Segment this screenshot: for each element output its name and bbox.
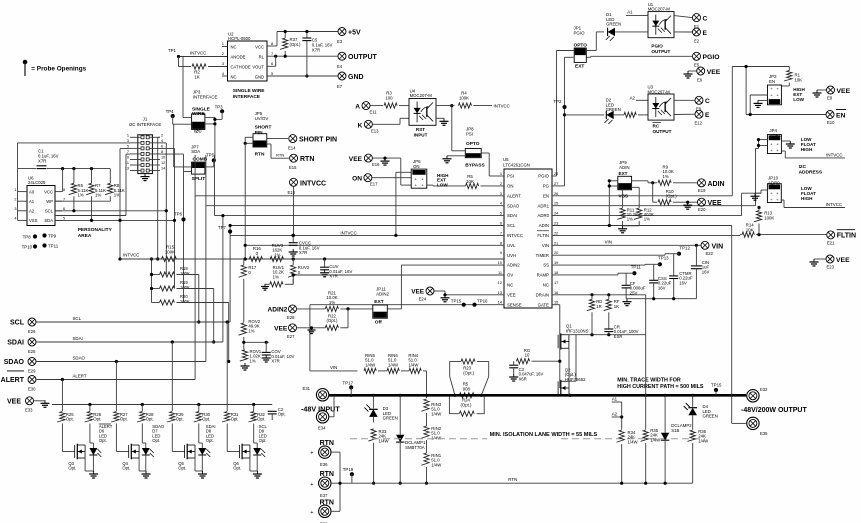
wire E16 gnd xyxy=(373,158,412,185)
ground ROV1 xyxy=(241,363,250,370)
wire R22 right xyxy=(340,309,348,328)
terminal E38 RTN xyxy=(310,499,334,523)
junction opt LED taps xyxy=(61,320,229,381)
wire CSS bot xyxy=(653,283,655,299)
wire drain to node xyxy=(645,295,647,396)
svg-text:PSI: PSI xyxy=(466,132,473,137)
wire VEE to R22 xyxy=(297,327,326,329)
probe openings legend xyxy=(23,60,87,76)
svg-text:SDAI: SDAI xyxy=(73,336,83,341)
svg-text:E3: E3 xyxy=(337,39,343,44)
svg-text:E: E xyxy=(705,112,710,119)
wire DCLAMP2 v xyxy=(664,395,666,433)
wire ADIN2 to R21 xyxy=(297,308,326,310)
resistor R28 xyxy=(137,412,154,423)
terminal E1 C xyxy=(693,14,708,29)
wire TP3 drop xyxy=(215,111,222,119)
svg-text:SS: SS xyxy=(543,263,549,268)
LED D7 xyxy=(142,424,154,458)
wire JP3 pin4 xyxy=(205,123,215,125)
wire JP4 left drop xyxy=(758,140,760,149)
wire R3 to U4 xyxy=(399,105,409,107)
wire C5 bottom xyxy=(306,41,308,76)
junction bundle xyxy=(165,209,176,222)
svg-text:16V: 16V xyxy=(658,285,666,290)
svg-text:E35: E35 xyxy=(760,431,768,436)
wire R11 bot xyxy=(622,221,624,226)
jumper JP3 INTERFACE xyxy=(192,90,218,135)
svg-text:Opt.: Opt. xyxy=(152,438,160,443)
svg-text:= Probe Openings: = Probe Openings xyxy=(31,66,86,73)
wire tp11 link xyxy=(626,272,634,274)
wire JP11 right xyxy=(387,308,401,310)
terminal E5 PGIO xyxy=(693,52,720,67)
svg-text:TP16: TP16 xyxy=(477,298,488,303)
junction DCLAMP1 rtn xyxy=(399,482,402,485)
wire U6 SDA ext xyxy=(92,219,175,221)
resistor RIN2 xyxy=(421,426,442,440)
ground Q6D9 xyxy=(253,471,262,478)
wire -48V bus xyxy=(329,394,746,397)
svg-text:Opt.: Opt. xyxy=(259,438,267,443)
wire JP6 low to R5 xyxy=(427,184,433,187)
svg-text:E12: E12 xyxy=(695,121,703,126)
svg-text:E29: E29 xyxy=(28,369,36,374)
resistor R25 xyxy=(57,412,74,423)
junction JP9 xyxy=(608,179,611,187)
wire U6 SDA net xyxy=(55,196,92,220)
svg-text:1%: 1% xyxy=(627,217,633,222)
svg-text:A1: A1 xyxy=(612,397,618,402)
junction JP5 xyxy=(244,142,247,145)
wire U4 to JP8 xyxy=(452,106,466,151)
svg-text:12: 12 xyxy=(161,161,165,165)
svg-text:16V: 16V xyxy=(679,280,687,285)
svg-text:1K: 1K xyxy=(614,304,619,309)
svg-text:E34: E34 xyxy=(318,426,326,431)
wire tp12 link xyxy=(674,253,679,255)
wire ALERT pin xyxy=(195,195,504,197)
resistor RIN1 xyxy=(421,453,442,467)
terminal E34 xyxy=(316,411,328,431)
wire R20 right xyxy=(177,303,229,362)
svg-text:J1: J1 xyxy=(143,117,148,122)
wire U4 pin4 xyxy=(436,105,455,107)
ground RUV1 xyxy=(261,284,269,290)
junction sdai xyxy=(221,214,224,217)
capacitor CUV xyxy=(320,264,352,279)
label INTVCC JP10 xyxy=(826,202,842,207)
svg-text:+: + xyxy=(310,482,313,488)
svg-text:TP1: TP1 xyxy=(168,48,177,53)
svg-text:E30: E30 xyxy=(28,387,36,392)
svg-text:19: 19 xyxy=(554,260,558,265)
jumper JP8 PSI xyxy=(465,127,485,169)
wire JP6 INTVCC riser xyxy=(396,172,411,235)
wire bundle v3 xyxy=(160,149,175,221)
wire J1 pin5 drop xyxy=(120,149,130,260)
junction pullups xyxy=(150,257,159,290)
wire tp15 stem xyxy=(715,390,717,395)
wire C1 right rail xyxy=(47,168,110,170)
svg-text:VBS: VBS xyxy=(619,194,628,199)
resistor R18 xyxy=(160,266,190,277)
svg-text:E6: E6 xyxy=(697,77,703,82)
wire E38 link xyxy=(331,483,340,511)
svg-text:X7R: X7R xyxy=(38,158,46,163)
wire R18 left xyxy=(152,274,160,276)
svg-text:1: 1 xyxy=(500,171,502,176)
wire SCL line xyxy=(36,321,230,323)
jumper JP5 UV/OV xyxy=(253,111,271,158)
wire OV tap xyxy=(244,341,269,343)
jumper JP1 PGIO xyxy=(574,26,588,70)
wire R37 bottom to RL xyxy=(284,51,286,56)
label RTN net xyxy=(508,477,517,482)
capacitor COV xyxy=(262,349,295,364)
test point TP4 xyxy=(166,109,175,118)
svg-text:OPTO: OPTO xyxy=(574,42,588,48)
svg-text:GATE: GATE xyxy=(538,302,550,307)
label RTN net xyxy=(276,153,284,158)
wire U1 C xyxy=(674,16,692,18)
svg-text:EXT: EXT xyxy=(575,64,584,70)
resistor RUV2 xyxy=(288,265,310,277)
wire SCL vert xyxy=(229,226,231,323)
svg-text:14: 14 xyxy=(161,167,165,171)
terminal E16 VEE xyxy=(349,154,380,167)
junction rtn e36 xyxy=(338,482,341,485)
resistor R5 0.008 labels xyxy=(463,382,471,392)
ground C3 xyxy=(509,374,518,381)
wire JP4 INTVCC xyxy=(781,151,845,158)
svg-text:E37: E37 xyxy=(320,493,328,498)
ground E23 xyxy=(810,259,819,266)
capacitor C3 xyxy=(509,365,543,381)
wire VIN sense line xyxy=(310,370,358,372)
wire U3 pin1 stub xyxy=(636,99,648,101)
label D8 xyxy=(206,424,216,443)
svg-text:GND: GND xyxy=(255,74,264,79)
svg-text:MIN. ISOLATION LANE WIDTH = 55: MIN. ISOLATION LANE WIDTH = 55 MILS xyxy=(490,432,598,438)
svg-text:5: 5 xyxy=(500,211,502,216)
terminal E2 E xyxy=(693,28,708,43)
svg-text:TP15: TP15 xyxy=(711,382,722,387)
svg-text:E18: E18 xyxy=(288,190,296,195)
resistor R19 xyxy=(160,280,190,291)
svg-text:Opt.: Opt. xyxy=(233,466,241,471)
wire INTVCC to U2 ANODE xyxy=(168,48,228,58)
test point TP10 xyxy=(22,244,38,249)
wire EN pin net xyxy=(552,67,789,196)
test point TP3 xyxy=(215,105,225,114)
svg-text:23: 23 xyxy=(554,221,558,226)
svg-text:INTVCC: INTVCC xyxy=(340,230,356,235)
wire D3 to R33 xyxy=(372,417,374,423)
wire CVCC top xyxy=(292,235,294,242)
wire RD v xyxy=(591,295,593,300)
svg-text:10K: 10K xyxy=(466,179,474,184)
resistor RG xyxy=(517,348,531,364)
wire R2 to U2 CATHODE xyxy=(208,66,228,68)
junction rin rtn xyxy=(425,394,428,485)
jumper JP2 EN xyxy=(768,74,806,105)
svg-text:MOC207-M: MOC207-M xyxy=(648,89,671,94)
junction UVL tap xyxy=(244,244,247,247)
svg-text:1/4W: 1/4W xyxy=(365,362,376,367)
svg-text:EXT: EXT xyxy=(619,171,628,176)
svg-text:SCL: SCL xyxy=(10,320,25,327)
wire R12 bot xyxy=(623,221,640,226)
svg-text:E11: E11 xyxy=(370,110,378,115)
svg-text:A1: A1 xyxy=(29,199,35,204)
svg-text:E36: E36 xyxy=(320,462,328,467)
wire R31 bot xyxy=(227,424,239,452)
label SINGLE WIRE INTERFACE xyxy=(233,88,266,100)
terminal E37 RTN xyxy=(310,471,334,498)
terminal E26 SCL xyxy=(10,318,36,334)
ground CUV xyxy=(320,270,329,277)
wire E36 link xyxy=(331,452,340,483)
svg-text:C: C xyxy=(705,98,710,105)
svg-text:3: 3 xyxy=(14,207,16,211)
svg-text:VIN: VIN xyxy=(542,243,549,248)
svg-text:E13: E13 xyxy=(371,129,379,134)
test point TP5 xyxy=(206,153,216,163)
svg-text:E32: E32 xyxy=(760,387,768,392)
svg-text:Opt.: Opt. xyxy=(202,417,210,422)
junction OV xyxy=(292,273,295,276)
wire rin1 to rtn xyxy=(426,467,428,483)
junction R20 sdao xyxy=(227,360,230,363)
LED D2 xyxy=(605,98,621,124)
label D6 xyxy=(99,424,113,443)
svg-text:SDAO: SDAO xyxy=(4,359,25,366)
wire DCLAMP1 bot xyxy=(399,443,401,483)
svg-text:16: 16 xyxy=(554,290,558,295)
resistor R20 xyxy=(160,294,190,305)
svg-text:VEE: VEE xyxy=(274,325,288,332)
wire D9 bot xyxy=(256,455,258,471)
terminal E28 ADIN2 xyxy=(268,305,297,320)
svg-text:RTN: RTN xyxy=(320,499,334,506)
node A1 xyxy=(612,397,622,403)
resistor R7 xyxy=(86,183,106,198)
svg-text:E21: E21 xyxy=(827,240,835,245)
svg-text:X7R: X7R xyxy=(271,359,279,364)
wire SDAI vert xyxy=(222,216,224,342)
wire EN terminal riser xyxy=(746,67,826,115)
svg-text:PGIO: PGIO xyxy=(574,31,586,36)
ground Q3D6 xyxy=(89,471,98,478)
LED D9 xyxy=(253,424,265,458)
label INTVCC R4 xyxy=(494,104,510,109)
capacitor CSS xyxy=(649,276,671,290)
terminal E12 E xyxy=(695,110,711,125)
junction JP2 ext xyxy=(749,113,752,116)
wire R14 to FLTIN xyxy=(756,234,826,236)
svg-text:Opt.: Opt. xyxy=(146,417,154,422)
svg-text:SDA: SDA xyxy=(44,218,53,223)
terminal E18 INTVCC xyxy=(288,178,327,195)
svg-text:22: 22 xyxy=(554,230,558,235)
svg-text:16V: 16V xyxy=(702,269,710,274)
wire SDAO vert xyxy=(205,206,207,362)
svg-text:6: 6 xyxy=(500,221,502,226)
wire isolation lane dashed xyxy=(350,438,487,440)
wire SDAI line xyxy=(36,341,223,343)
junction R13 xyxy=(757,206,760,236)
svg-text:HIGH CURRENT PATH = 500 MILS: HIGH CURRENT PATH = 500 MILS xyxy=(617,384,704,390)
wire ALERT vert xyxy=(194,196,196,380)
terminal E10 EN xyxy=(826,110,846,126)
test point TP9 xyxy=(42,233,56,238)
svg-text:VOUT: VOUT xyxy=(252,64,264,69)
resistor ROV2 xyxy=(239,319,261,335)
resistor R30 xyxy=(194,412,211,423)
junction R33 rtn xyxy=(372,482,375,485)
wire R27 bot xyxy=(116,424,128,452)
svg-text:1: 1 xyxy=(127,134,129,138)
wire JP1 to D1 xyxy=(586,32,604,51)
wire UVH pin xyxy=(120,258,504,260)
wire D1 to U1 xyxy=(615,31,648,33)
svg-text:NC: NC xyxy=(507,283,513,288)
op-amp U3 MOC207-M optocoupler xyxy=(648,85,675,121)
wire JP5 to RTN xyxy=(267,144,289,158)
resistor R37 xyxy=(280,37,301,49)
wire JP3 feed xyxy=(183,57,192,118)
wire U2 VCC to +5V rail xyxy=(267,32,338,47)
svg-text:100: 100 xyxy=(385,95,393,100)
wire D8 bot xyxy=(201,455,203,471)
svg-text:PGIO: PGIO xyxy=(538,174,549,179)
svg-text:10: 10 xyxy=(525,353,530,358)
svg-text:X7R: X7R xyxy=(329,274,337,279)
test point TP7 xyxy=(218,225,232,234)
wire JP5 left xyxy=(245,137,253,143)
wire bundle v1 xyxy=(158,137,160,259)
svg-text:PIN: PIN xyxy=(255,130,264,136)
svg-text:TP17: TP17 xyxy=(343,381,354,386)
svg-text:TP11: TP11 xyxy=(48,243,59,248)
svg-text:(Opt.): (Opt.) xyxy=(666,194,678,199)
svg-text:1/4W: 1/4W xyxy=(698,438,709,443)
ground VEE E24 xyxy=(441,293,450,302)
wire U6 SCL ext xyxy=(74,210,166,212)
svg-text:VCC: VCC xyxy=(44,189,53,194)
LED D1 xyxy=(606,12,621,41)
resistor R12 xyxy=(634,207,654,221)
svg-text:VEE: VEE xyxy=(507,292,516,297)
terminal E25 SDAI xyxy=(7,338,36,354)
wire bundle v4 xyxy=(160,154,184,302)
test point TP15 xyxy=(711,382,722,392)
svg-text:100K: 100K xyxy=(165,250,175,255)
terminal E3 +5V xyxy=(337,28,361,45)
wire JP8 gnd wire xyxy=(447,155,465,157)
wire UVL pin xyxy=(245,244,504,246)
svg-text:17: 17 xyxy=(554,280,558,285)
wire RAMP pin xyxy=(552,273,626,275)
resistor R35 xyxy=(641,428,662,442)
resistor R34 xyxy=(617,430,639,444)
svg-text:(Opt.): (Opt.) xyxy=(327,318,339,323)
ground U4 xyxy=(440,118,449,125)
svg-text:VIN: VIN xyxy=(605,239,612,244)
svg-text:ADIN2: ADIN2 xyxy=(507,263,520,268)
resistor RD xyxy=(587,299,603,311)
junction ADIN node xyxy=(651,181,654,184)
svg-text:EXT: EXT xyxy=(374,299,383,305)
svg-text:RAMP: RAMP xyxy=(537,273,550,278)
svg-text:E16: E16 xyxy=(372,162,380,167)
wire bundle v2b xyxy=(165,211,167,275)
svg-text:4: 4 xyxy=(14,217,16,221)
svg-text:Opt.: Opt. xyxy=(278,412,286,417)
wire D6 bot xyxy=(92,455,94,471)
svg-text:2: 2 xyxy=(161,134,163,138)
wire C3 gnd xyxy=(513,368,515,374)
junction RL node xyxy=(274,55,287,58)
svg-text:PERSONALITY: PERSONALITY xyxy=(78,227,113,233)
wire R36 bot xyxy=(692,443,694,483)
ground R10 xyxy=(683,202,692,209)
resistor R27 xyxy=(111,412,128,423)
svg-text:E5: E5 xyxy=(694,63,700,68)
wire U2 GND to GND terminal xyxy=(267,75,338,77)
resistor R22 xyxy=(325,314,338,331)
wire R37 rail xyxy=(284,32,286,39)
svg-text:ON: ON xyxy=(352,176,362,183)
svg-text:ADIN2: ADIN2 xyxy=(376,292,389,297)
wire DCLAMP2 bot xyxy=(664,441,666,483)
ground E8 xyxy=(813,90,822,97)
svg-text:BYPASS: BYPASS xyxy=(465,163,485,169)
svg-text:TIMER: TIMER xyxy=(536,253,549,258)
resistor R10 xyxy=(658,189,677,205)
ground J1 xyxy=(141,174,150,181)
svg-text:1/4W: 1/4W xyxy=(408,362,419,367)
junction clamp2 rtn xyxy=(644,482,667,485)
transistor Q2 xyxy=(558,368,586,397)
wire ON to JP6 box xyxy=(372,177,411,179)
terminal E8 VEE xyxy=(827,86,851,100)
svg-text:RTN: RTN xyxy=(255,152,265,158)
svg-text:26: 26 xyxy=(554,191,558,196)
resistor R2B xyxy=(624,96,636,118)
svg-text:VEE: VEE xyxy=(349,156,363,163)
svg-text:9: 9 xyxy=(500,250,502,255)
junction vin cin xyxy=(695,244,698,247)
wire RTN line xyxy=(331,482,693,484)
wire R19 right xyxy=(177,289,214,343)
wire SDAI up xyxy=(214,155,216,216)
resistor R29 xyxy=(167,412,184,423)
test point TP2 xyxy=(553,99,566,109)
svg-text:Opt.: Opt. xyxy=(99,438,107,443)
svg-text:2: 2 xyxy=(14,197,16,201)
svg-text:SHORT PIN: SHORT PIN xyxy=(299,137,337,144)
svg-text:MOC207-M: MOC207-M xyxy=(648,7,671,12)
wire U4 pin3 gnd xyxy=(436,117,444,119)
terminal E31 xyxy=(303,386,329,401)
svg-text:TP9: TP9 xyxy=(48,233,57,238)
svg-text:E23: E23 xyxy=(827,265,835,270)
svg-text:OPTO: OPTO xyxy=(466,141,480,147)
svg-text:E7: E7 xyxy=(337,84,343,89)
test point TP13 xyxy=(658,256,669,267)
